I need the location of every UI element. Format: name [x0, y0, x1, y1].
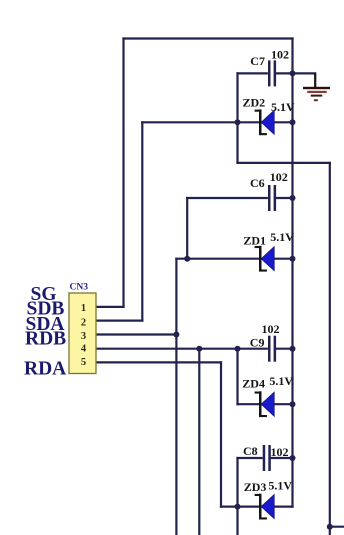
svg-text:5.1V: 5.1V: [270, 230, 294, 244]
svg-text:CN3: CN3: [70, 283, 89, 293]
svg-text:1: 1: [81, 303, 86, 314]
svg-text:C7: C7: [250, 54, 265, 68]
svg-text:102: 102: [262, 322, 280, 336]
svg-text:2: 2: [81, 317, 86, 328]
svg-text:RDA: RDA: [24, 359, 66, 380]
svg-text:5: 5: [81, 357, 86, 368]
svg-text:4: 4: [81, 343, 87, 354]
svg-text:ZD3: ZD3: [244, 480, 267, 494]
svg-text:102: 102: [270, 170, 288, 184]
svg-text:ZD4: ZD4: [242, 377, 265, 391]
svg-text:C9: C9: [250, 335, 265, 349]
svg-text:RDB: RDB: [25, 328, 66, 349]
svg-text:5.1V: 5.1V: [271, 100, 295, 114]
svg-text:5.1V: 5.1V: [268, 479, 292, 493]
svg-text:C8: C8: [243, 444, 258, 458]
svg-text:102: 102: [271, 48, 289, 62]
svg-text:3: 3: [81, 331, 86, 342]
svg-text:102: 102: [271, 445, 289, 459]
svg-text:ZD1: ZD1: [243, 233, 266, 247]
svg-text:5.1V: 5.1V: [269, 374, 293, 388]
svg-text:ZD2: ZD2: [243, 95, 266, 109]
svg-text:C6: C6: [250, 176, 265, 190]
